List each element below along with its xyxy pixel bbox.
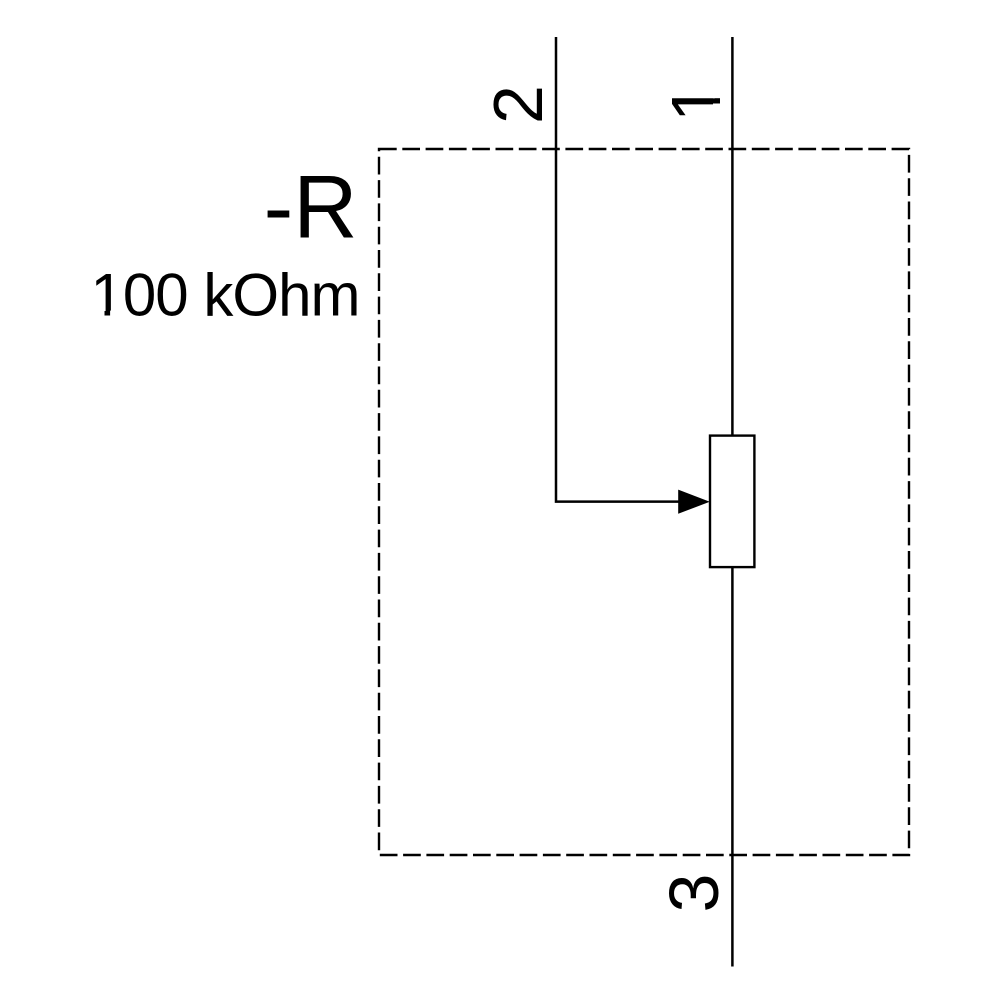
potentiometer R body [710,436,754,567]
svg-text:-R: -R [264,157,358,257]
svg-text:2: 2 [479,85,557,124]
svg-text:3: 3 [655,874,733,913]
serif mask for pin number 1 [713,80,722,98]
wire pin 1 (vertical from top to potentiometer body) [731,37,734,436]
svg-text:100 kOhm: 100 kOhm [91,262,361,329]
svg-text:1: 1 [657,83,735,122]
wiper arrowhead [678,490,710,514]
serif mask for digit 1 of value label [92,311,105,319]
wire pin 2 (vertical from top, then horizontal to wiper arrow) [556,37,679,502]
dashed component boundary box [379,149,909,855]
wire pin 3 (vertical from potentiometer body to bottom) [731,567,734,967]
